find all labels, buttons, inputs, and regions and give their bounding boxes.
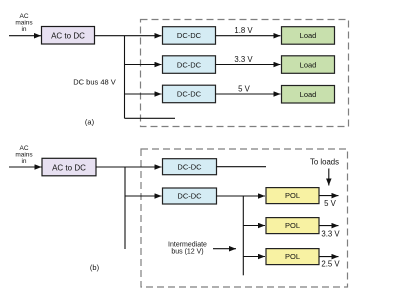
svg-text:DC-DC: DC-DC [177,31,202,40]
svg-text:POL: POL [285,191,300,200]
svg-text:1.8 V: 1.8 V [234,26,253,35]
svg-text:DC bus 48 V: DC bus 48 V [73,78,116,87]
svg-text:POL: POL [285,221,300,230]
svg-text:(b): (b) [90,263,100,272]
svg-text:(a): (a) [85,118,95,127]
svg-text:Load: Load [300,90,317,99]
svg-text:Load: Load [300,60,317,69]
svg-text:3.3 V: 3.3 V [234,55,253,64]
svg-text:DC-DC: DC-DC [177,90,202,99]
svg-text:Intermediate: Intermediate [168,242,207,249]
svg-text:in: in [21,26,26,33]
svg-text:Load: Load [300,31,317,40]
svg-text:2.5 V: 2.5 V [321,259,340,268]
svg-text:AC to DC: AC to DC [51,32,85,41]
svg-text:AC to DC: AC to DC [52,163,86,172]
svg-text:DC-DC: DC-DC [177,192,202,201]
svg-text:bus (12 V): bus (12 V) [171,249,203,256]
svg-text:To loads: To loads [310,158,339,167]
svg-text:in: in [21,158,26,165]
svg-text:5 V: 5 V [324,199,337,208]
svg-text:POL: POL [285,252,300,261]
svg-text:5 V: 5 V [238,85,251,94]
svg-text:3.3 V: 3.3 V [321,229,340,238]
svg-text:DC-DC: DC-DC [177,162,202,171]
svg-text:DC-DC: DC-DC [177,60,202,69]
